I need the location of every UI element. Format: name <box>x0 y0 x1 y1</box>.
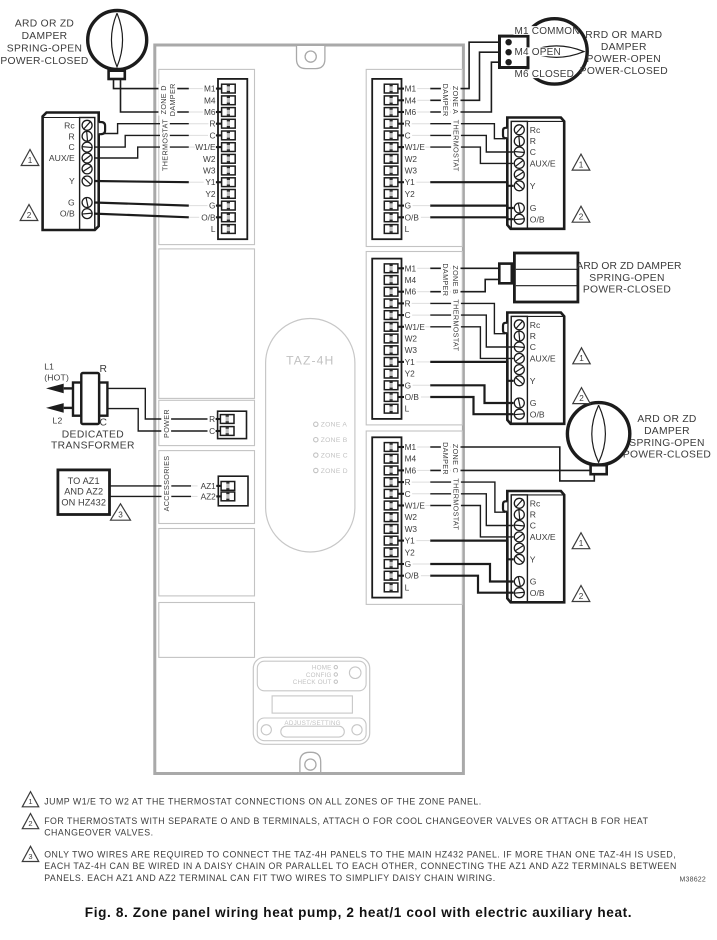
svg-text:DAMPER: DAMPER <box>441 263 450 296</box>
svg-text:R: R <box>530 510 536 520</box>
svg-text:M1: M1 <box>405 84 417 94</box>
wire zone A M1 to damper common <box>430 42 500 88</box>
svg-text:DEDICATED: DEDICATED <box>62 429 124 440</box>
svg-text:1: 1 <box>579 354 584 363</box>
note 1 triangle <box>22 792 38 807</box>
svg-text:3: 3 <box>118 511 123 520</box>
zone B thermostat vertical label <box>451 299 461 351</box>
svg-text:(HOT): (HOT) <box>44 373 69 383</box>
svg-text:FOR THERMOSTATS WITH SEPARATE: FOR THERMOSTATS WITH SEPARATE O AND B TE… <box>44 816 648 826</box>
svg-text:W1/E: W1/E <box>405 142 426 152</box>
svg-text:SPRING-OPEN: SPRING-OPEN <box>589 273 664 284</box>
L2 lead arrow <box>64 407 74 409</box>
zone A terminal strip <box>372 79 425 239</box>
svg-text:TAZ-4H: TAZ-4H <box>286 353 334 367</box>
svg-text:O/B: O/B <box>530 214 545 224</box>
zone C damper vertical label <box>441 442 451 475</box>
keypad adjust bar <box>257 718 366 741</box>
zone D damper vertical label <box>159 84 169 116</box>
svg-text:Y2: Y2 <box>405 547 416 557</box>
wire zone C O/B to thermostat O/B <box>430 576 513 593</box>
svg-text:M6: M6 <box>405 107 417 117</box>
svg-text:G: G <box>530 398 537 408</box>
svg-text:JUMP W1/E TO W2 AT THE THERMOS: JUMP W1/E TO W2 AT THE THERMOSTAT CONNEC… <box>44 797 482 807</box>
svg-text:ZONE D: ZONE D <box>321 468 348 475</box>
svg-text:1: 1 <box>579 539 584 548</box>
svg-text:L2: L2 <box>53 415 63 425</box>
wire zone D G to thermostat G <box>94 203 189 206</box>
zone A section box <box>366 69 462 246</box>
wire zone D damper to M6 <box>121 79 189 112</box>
zone A damper terminal labels <box>514 26 566 35</box>
adjust/setting label <box>287 720 338 726</box>
wire zone D W1/E to thermostat AUX/E <box>94 147 189 158</box>
svg-text:R: R <box>530 331 536 341</box>
svg-text:POWER-OPEN: POWER-OPEN <box>587 54 662 65</box>
triangle note 2 marker zone A <box>572 206 590 222</box>
svg-text:POWER-CLOSED: POWER-CLOSED <box>623 450 711 461</box>
wire transformer C to power C <box>107 409 207 431</box>
triangle note 2 marker zone D <box>20 205 38 221</box>
svg-text:Rc: Rc <box>530 320 541 330</box>
zone A thermostat <box>503 118 564 229</box>
svg-text:M4: M4 <box>405 275 417 285</box>
svg-text:SPRING-OPEN: SPRING-OPEN <box>629 438 704 449</box>
wire AZ1 <box>110 485 192 487</box>
svg-text:R: R <box>210 119 216 129</box>
svg-text:AUX/E: AUX/E <box>530 532 556 542</box>
svg-text:PANELS. EACH AZ1 AND AZ2 TERMI: PANELS. EACH AZ1 AND AZ2 TERMINAL CAN FI… <box>44 873 495 883</box>
svg-text:W2: W2 <box>405 154 418 164</box>
svg-text:O/B: O/B <box>201 212 216 222</box>
left lower section box 2 <box>159 603 255 658</box>
svg-text:W3: W3 <box>405 345 418 355</box>
svg-text:G: G <box>530 203 537 213</box>
dedicated transformer <box>73 383 81 416</box>
svg-text:M6: M6 <box>204 107 216 117</box>
svg-text:Y1: Y1 <box>405 536 416 546</box>
svg-text:DAMPER: DAMPER <box>441 442 450 475</box>
triangle note 1 marker zone A <box>572 154 590 170</box>
zone A thermostat vertical label <box>451 120 461 172</box>
svg-text:C: C <box>530 342 536 352</box>
svg-text:O/B: O/B <box>530 409 545 419</box>
svg-text:ZONE D: ZONE D <box>159 85 168 114</box>
svg-text:Rc: Rc <box>530 125 541 135</box>
svg-text:Y2: Y2 <box>405 189 416 199</box>
svg-text:L1: L1 <box>44 361 54 371</box>
svg-text:ARD OR ZD: ARD OR ZD <box>637 414 696 425</box>
svg-text:C: C <box>530 147 536 157</box>
svg-text:AUX/E: AUX/E <box>530 354 556 364</box>
zone A damper motor terminal block <box>522 19 587 84</box>
svg-text:O/B: O/B <box>530 588 545 598</box>
svg-text:POWER-CLOSED: POWER-CLOSED <box>580 66 668 77</box>
wire zone C Y1 to thermostat Y <box>430 541 513 560</box>
svg-text:AND AZ2: AND AZ2 <box>64 486 103 496</box>
svg-text:L: L <box>405 582 410 592</box>
svg-text:ARD OR ZD: ARD OR ZD <box>15 18 74 29</box>
svg-text:TO AZ1: TO AZ1 <box>68 476 100 486</box>
svg-text:O/B: O/B <box>405 212 420 222</box>
svg-text:ZONE C: ZONE C <box>321 453 348 460</box>
zone D section box <box>159 69 255 244</box>
svg-text:2: 2 <box>579 394 584 403</box>
wire zone D Y1 to thermostat Y <box>94 181 189 182</box>
svg-text:R: R <box>68 131 74 141</box>
zone C terminal strip <box>372 437 425 597</box>
keypad display area <box>257 661 366 691</box>
svg-text:R: R <box>99 364 107 375</box>
power terminal block <box>209 411 246 438</box>
svg-text:1: 1 <box>579 161 584 170</box>
zone C section box <box>366 431 462 604</box>
zone C thermostat <box>503 491 564 602</box>
svg-text:DAMPER: DAMPER <box>644 426 690 437</box>
svg-text:C: C <box>530 521 536 531</box>
svg-text:ARD OR ZD DAMPER: ARD OR ZD DAMPER <box>576 261 681 272</box>
svg-text:W2: W2 <box>203 154 216 164</box>
panel bottom mounting tab <box>300 752 321 772</box>
svg-text:G: G <box>209 201 215 211</box>
note 3 triangle <box>22 846 38 861</box>
svg-text:2: 2 <box>579 592 584 601</box>
svg-text:C: C <box>210 130 216 140</box>
svg-text:W1/E: W1/E <box>195 142 216 152</box>
svg-text:AUX/E: AUX/E <box>530 159 556 169</box>
triangle note 3 marker <box>111 504 131 520</box>
svg-text:Y: Y <box>530 376 536 386</box>
svg-text:R: R <box>530 136 536 146</box>
keypad pill slot <box>281 726 345 737</box>
svg-text:W3: W3 <box>405 166 418 176</box>
ZONE B LED <box>314 438 318 442</box>
left empty section box <box>159 249 255 399</box>
svg-text:M6 CLOSED: M6 CLOSED <box>515 69 575 80</box>
svg-text:DAMPER: DAMPER <box>441 84 450 117</box>
wire zone A Y1 to thermostat Y <box>430 182 513 186</box>
note 2 triangle <box>22 814 38 829</box>
svg-text:1: 1 <box>28 797 32 806</box>
svg-text:L: L <box>211 224 216 234</box>
svg-text:ZONE A: ZONE A <box>321 422 348 429</box>
svg-text:W3: W3 <box>203 166 216 176</box>
leader lines <box>189 89 430 576</box>
svg-text:O/B: O/B <box>405 571 420 581</box>
svg-text:AUX/E: AUX/E <box>49 153 75 163</box>
keypad slot <box>272 696 352 713</box>
zone C thermostat vertical label <box>451 478 461 530</box>
zone B section box <box>366 252 462 425</box>
svg-text:SPRING-OPEN: SPRING-OPEN <box>7 43 82 54</box>
keypad outline <box>253 657 369 744</box>
svg-text:M1: M1 <box>204 84 216 94</box>
svg-text:Y: Y <box>69 176 75 186</box>
svg-text:W1/E: W1/E <box>405 322 426 332</box>
zone A damper vertical label <box>441 84 451 117</box>
wire zone D C to thermostat C <box>94 135 189 147</box>
wire zone C M1 to damper <box>430 447 594 481</box>
L1 hot lead arrow <box>64 387 74 389</box>
svg-text:Y1: Y1 <box>405 357 416 367</box>
accessories vertical label <box>162 456 172 512</box>
svg-text:Y2: Y2 <box>205 189 216 199</box>
svg-text:Y: Y <box>530 554 536 564</box>
svg-text:DAMPER: DAMPER <box>601 42 647 53</box>
svg-text:THERMOSTAT: THERMOSTAT <box>161 119 170 171</box>
svg-text:M6: M6 <box>405 465 417 475</box>
svg-text:R: R <box>405 119 411 129</box>
svg-text:R: R <box>405 477 411 487</box>
wire zone A C to thermostat C <box>430 135 513 152</box>
svg-text:Rc: Rc <box>64 120 75 130</box>
wire zone D damper to M1 <box>114 79 189 89</box>
accessories section box <box>159 451 255 524</box>
svg-text:W2: W2 <box>405 512 418 522</box>
ZONE A LED <box>314 422 318 426</box>
svg-text:G: G <box>68 198 75 208</box>
svg-text:Y1: Y1 <box>405 177 416 187</box>
svg-text:CONFIG: CONFIG <box>306 672 332 679</box>
svg-text:CHANGEOVER VALVES.: CHANGEOVER VALVES. <box>44 828 153 838</box>
triangle note 1 marker zone D <box>21 150 39 166</box>
wire zone B Y1 to thermostat Y <box>430 362 513 381</box>
wire zone B C to thermostat C <box>430 315 513 347</box>
svg-text:Y1: Y1 <box>205 177 216 187</box>
svg-text:1: 1 <box>28 156 33 165</box>
svg-text:AZ1: AZ1 <box>201 481 217 491</box>
svg-text:AZ2: AZ2 <box>201 491 217 501</box>
triangle note 2 marker zone C <box>572 586 590 602</box>
svg-text:C: C <box>68 142 74 152</box>
svg-text:2: 2 <box>27 211 32 220</box>
wire zone B G to thermostat G <box>430 385 513 403</box>
wire zone B R to thermostat Rc <box>430 303 505 333</box>
zone B damper vertical label <box>441 263 451 296</box>
wire AZ2 <box>110 495 192 497</box>
svg-text:M6: M6 <box>405 287 417 297</box>
zone B terminal strip <box>372 259 425 419</box>
svg-text:POWER: POWER <box>162 409 171 438</box>
svg-text:M4 OPEN: M4 OPEN <box>515 47 561 58</box>
wire zone D R to thermostat Rc <box>104 124 189 134</box>
svg-text:ZONE A: ZONE A <box>451 86 460 114</box>
wire zone B M6 to damper <box>430 279 499 291</box>
zone C damper ball (ARD or ZD) <box>567 403 629 465</box>
svg-text:THERMOSTAT: THERMOSTAT <box>451 478 460 530</box>
svg-text:Y: Y <box>530 181 536 191</box>
svg-text:G: G <box>530 577 537 587</box>
keypad right button <box>352 725 362 735</box>
zone panel outline <box>155 45 464 774</box>
wire zone D O/B to thermostat O/B <box>94 214 189 218</box>
zone D terminal strip <box>195 79 247 239</box>
svg-text:M4: M4 <box>405 454 417 464</box>
svg-text:THERMOSTAT: THERMOSTAT <box>451 299 460 351</box>
wire zone C R to thermostat Rc <box>430 482 505 512</box>
svg-text:C: C <box>405 489 411 499</box>
svg-text:POWER-CLOSED: POWER-CLOSED <box>0 56 88 67</box>
svg-text:R: R <box>405 298 411 308</box>
svg-text:ZONE C: ZONE C <box>451 444 460 473</box>
svg-text:HOME: HOME <box>312 665 332 672</box>
svg-text:DAMPER: DAMPER <box>22 31 68 42</box>
keypad round button <box>349 667 361 679</box>
svg-text:R: R <box>209 414 215 424</box>
zone D thermostat <box>43 113 106 231</box>
wire zone B W1/E to thermostat AUX/E <box>430 327 513 359</box>
zone D thermostat vertical label <box>160 119 170 171</box>
svg-text:M4: M4 <box>204 95 216 105</box>
wire zone C W1/E to thermostat AUX/E <box>430 506 513 537</box>
svg-text:C: C <box>405 130 411 140</box>
svg-text:Fig. 8. Zone panel wiring heat: Fig. 8. Zone panel wiring heat pump, 2 h… <box>85 905 632 920</box>
triangle note 2 marker zone B <box>573 388 590 404</box>
svg-text:W1/E: W1/E <box>405 501 426 511</box>
svg-text:THERMOSTAT: THERMOSTAT <box>451 120 460 172</box>
wire zone A R to thermostat Rc <box>430 124 505 139</box>
svg-text:G: G <box>405 559 411 569</box>
svg-text:DAMPER: DAMPER <box>168 83 177 116</box>
svg-text:W3: W3 <box>405 524 418 534</box>
svg-text:CHECK OUT: CHECK OUT <box>293 679 332 686</box>
svg-text:M38622: M38622 <box>680 876 707 883</box>
keypad left button <box>261 725 271 735</box>
wire zone A M6 to damper closed <box>430 62 500 112</box>
svg-text:POWER-CLOSED: POWER-CLOSED <box>583 285 671 296</box>
svg-text:W2: W2 <box>405 334 418 344</box>
wire zone C M6 to damper <box>430 469 590 471</box>
svg-text:TRANSFORMER: TRANSFORMER <box>51 441 135 452</box>
svg-text:M1: M1 <box>405 263 417 273</box>
svg-text:ZONE B: ZONE B <box>451 265 460 294</box>
accessories terminal block <box>201 476 248 506</box>
wire zone B O/B to thermostat O/B <box>430 397 513 414</box>
svg-text:G: G <box>405 380 411 390</box>
power section box <box>159 400 255 445</box>
wire zone C G to thermostat G <box>430 564 513 582</box>
left lower section box 1 <box>159 529 255 596</box>
svg-text:M1 COMMON: M1 COMMON <box>515 26 580 37</box>
zone B thermostat <box>503 313 564 424</box>
svg-text:ZONE B: ZONE B <box>321 437 348 444</box>
wire zone A G to thermostat G <box>430 206 513 208</box>
wire transformer R to power R <box>107 388 207 419</box>
zone B damper connector <box>512 272 515 275</box>
wire zone A O/B to thermostat O/B <box>430 217 513 219</box>
svg-text:ACCESSORIES: ACCESSORIES <box>162 456 171 512</box>
svg-text:O/B: O/B <box>60 209 75 219</box>
wire zone A W1/E to thermostat AUX/E <box>430 147 513 163</box>
svg-text:EACH TAZ-4H CAN BE WIRED IN A: EACH TAZ-4H CAN BE WIRED IN A DAISY CHAI… <box>44 861 677 871</box>
svg-text:C: C <box>405 310 411 320</box>
svg-text:O/B: O/B <box>405 392 420 402</box>
svg-text:2: 2 <box>579 213 584 222</box>
svg-text:Rc: Rc <box>530 498 541 508</box>
svg-text:L: L <box>405 224 410 234</box>
svg-text:C: C <box>209 426 215 436</box>
svg-text:M1: M1 <box>405 442 417 452</box>
svg-text:L: L <box>405 404 410 414</box>
TO AZ1 AND AZ2 ON HZ432 note box <box>58 470 110 515</box>
svg-text:2: 2 <box>28 819 32 828</box>
ZONE D LED <box>314 468 318 472</box>
svg-text:M4: M4 <box>405 95 417 105</box>
wire zone C C to thermostat C <box>430 494 513 526</box>
TAZ-4H module outline <box>266 319 355 553</box>
svg-text:Y2: Y2 <box>405 369 416 379</box>
panel top mounting tab <box>297 46 325 69</box>
wire zone A M4 to damper open <box>430 52 500 100</box>
wire zone B M1 to damper <box>430 267 499 269</box>
triangle note 1 marker zone C <box>572 533 590 549</box>
power vertical label <box>161 409 171 438</box>
ZONE C LED <box>314 453 318 457</box>
triangle note 1 marker zone B <box>573 348 590 364</box>
svg-text:G: G <box>405 201 411 211</box>
svg-text:C: C <box>99 418 107 429</box>
zone B damper (ARD or ZD rectangular) <box>514 253 578 302</box>
svg-text:ON HZ432: ON HZ432 <box>61 498 106 508</box>
svg-text:RRD OR MARD: RRD OR MARD <box>585 30 662 41</box>
svg-text:ONLY TWO WIRES ARE REQUIRED TO: ONLY TWO WIRES ARE REQUIRED TO CONNECT T… <box>44 850 676 860</box>
svg-text:3: 3 <box>28 852 32 861</box>
zone D damper ball (ARD or ZD) <box>88 11 147 70</box>
